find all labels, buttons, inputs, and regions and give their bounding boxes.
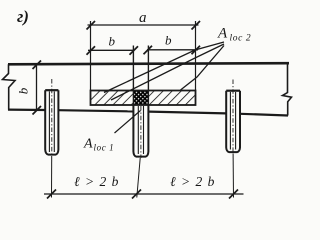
svg-text:loc 2: loc 2 [230,34,252,44]
svg-text:b: b [109,34,116,49]
svg-text:ℓ > 2 b: ℓ > 2 b [74,174,119,189]
svg-text:A: A [217,26,228,42]
svg-text:a: a [139,10,147,26]
svg-text:b: b [165,33,172,48]
svg-text:A: A [83,137,93,152]
svg-text:г): г) [17,7,29,26]
svg-text:loc 1: loc 1 [94,143,115,153]
svg-text:b: b [16,87,31,94]
svg-text:ℓ > 2 b: ℓ > 2 b [170,174,215,189]
